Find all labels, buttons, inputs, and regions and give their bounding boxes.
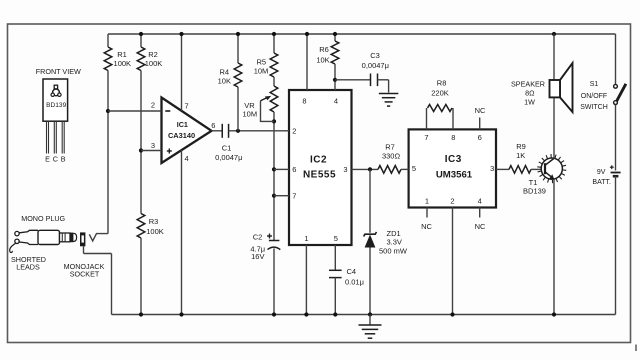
svg-text:IC1: IC1	[177, 120, 188, 129]
svg-text:C3: C3	[370, 51, 380, 60]
svg-text:8: 8	[451, 133, 455, 142]
svg-text:C: C	[53, 155, 58, 164]
svg-text:9V: 9V	[597, 169, 606, 176]
svg-text:7: 7	[424, 133, 428, 142]
svg-text:16V: 16V	[251, 252, 264, 261]
svg-text:NC: NC	[421, 222, 432, 231]
svg-text:4: 4	[185, 154, 189, 163]
svg-text:E: E	[45, 155, 50, 164]
svg-text:R8: R8	[437, 78, 447, 87]
svg-text:R1: R1	[117, 50, 127, 59]
svg-text:NC: NC	[475, 222, 486, 231]
svg-text:100K: 100K	[145, 59, 163, 68]
svg-text:0,0047μ: 0,0047μ	[362, 61, 389, 70]
svg-text:SWITCH: SWITCH	[580, 104, 608, 111]
svg-text:BD139: BD139	[46, 102, 66, 109]
svg-text:10M: 10M	[254, 66, 269, 75]
svg-text:1: 1	[304, 234, 308, 243]
svg-text:R9: R9	[516, 142, 526, 151]
svg-text:100K: 100K	[114, 59, 132, 68]
svg-text:R6: R6	[319, 45, 329, 54]
svg-text:SOCKET: SOCKET	[70, 270, 100, 279]
svg-text:NC: NC	[475, 106, 486, 115]
svg-text:R3: R3	[149, 217, 159, 226]
svg-text:4: 4	[478, 196, 482, 205]
svg-text:UM3561: UM3561	[436, 169, 473, 180]
svg-text:3: 3	[490, 164, 494, 173]
svg-text:R4: R4	[220, 67, 230, 76]
svg-text:7: 7	[185, 102, 189, 111]
svg-text:10K: 10K	[218, 76, 231, 85]
svg-text:10M: 10M	[243, 110, 258, 119]
svg-text:LEADS: LEADS	[16, 263, 40, 272]
svg-text:FRONT VIEW: FRONT VIEW	[36, 67, 81, 76]
svg-text:R7: R7	[385, 143, 395, 152]
svg-text:3: 3	[151, 141, 155, 150]
svg-text:R5: R5	[257, 57, 267, 66]
svg-text:2: 2	[450, 196, 454, 205]
svg-text:BATT.: BATT.	[592, 179, 611, 186]
svg-text:330Ω: 330Ω	[382, 152, 401, 161]
svg-text:1W: 1W	[524, 97, 535, 106]
svg-text:1K: 1K	[516, 151, 525, 160]
svg-text:5: 5	[334, 234, 338, 243]
svg-text:2: 2	[151, 101, 155, 110]
svg-text:7: 7	[292, 191, 296, 200]
svg-text:C4: C4	[347, 267, 357, 276]
svg-text:B: B	[61, 155, 66, 164]
svg-text:C1: C1	[222, 144, 232, 153]
svg-text:5: 5	[412, 164, 416, 173]
svg-text:MONO PLUG: MONO PLUG	[21, 214, 65, 223]
svg-text:8: 8	[302, 96, 306, 105]
svg-text:6: 6	[211, 121, 215, 130]
svg-text:10K: 10K	[316, 56, 329, 65]
svg-text:CA3140: CA3140	[168, 131, 195, 140]
svg-text:IC2: IC2	[310, 155, 327, 166]
svg-text:BD139: BD139	[523, 186, 546, 195]
svg-text:3: 3	[343, 165, 347, 174]
svg-text:0,0047μ: 0,0047μ	[215, 153, 242, 162]
svg-text:220K: 220K	[431, 89, 449, 98]
svg-text:2: 2	[292, 126, 296, 135]
svg-text:ON/OFF: ON/OFF	[581, 93, 607, 100]
svg-text:NE555: NE555	[303, 170, 336, 181]
svg-text:C2: C2	[253, 232, 263, 241]
svg-text:SPEAKER: SPEAKER	[511, 79, 545, 88]
svg-text:4: 4	[334, 96, 338, 105]
svg-text:0.01μ: 0.01μ	[345, 278, 364, 287]
svg-text:IC3: IC3	[445, 154, 462, 165]
svg-text:R2: R2	[148, 50, 158, 59]
svg-text:S1: S1	[590, 81, 599, 88]
svg-text:1: 1	[425, 196, 429, 205]
svg-text:6: 6	[292, 165, 296, 174]
svg-text:500 mW: 500 mW	[379, 247, 408, 256]
svg-text:8Ω: 8Ω	[525, 88, 535, 97]
svg-text:100K: 100K	[146, 227, 164, 236]
svg-text:6: 6	[478, 133, 482, 142]
svg-text:3.3V: 3.3V	[387, 238, 402, 247]
